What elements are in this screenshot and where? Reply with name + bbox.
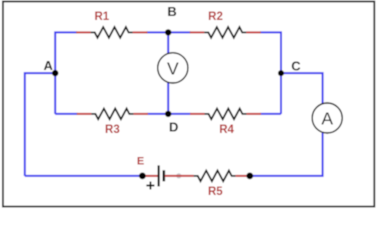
- resistor R2 zigzag: [204, 27, 246, 38]
- wire: bottom bridge row blue between R3 and R4 through node D: [147, 113, 191, 115]
- wire: battery to R5 (red): [165, 175, 194, 177]
- node C junction dot: [278, 70, 284, 76]
- svg-text:R3: R3: [105, 124, 120, 136]
- node D junction dot: [165, 111, 171, 117]
- wire: bottom outer row left blue (to battery junction): [25, 175, 141, 177]
- svg-text:R4: R4: [219, 124, 234, 136]
- battery plus sign: [146, 185, 154, 187]
- wire: top row left blue (bridge top-left corner to R1 left lead): [55, 32, 77, 114]
- wire: node A stub and left outer column: [25, 73, 55, 176]
- wire: bottom bridge row right blue: [260, 113, 281, 115]
- resistor R5 right lead (red): [236, 175, 250, 177]
- resistor R5 zigzag: [194, 171, 236, 182]
- wire: top row blue between R1 and R2 through node B: [147, 31, 191, 33]
- resistor R4 leads (red): [190, 113, 205, 115]
- wire: voltmeter to D: [167, 83, 169, 114]
- battery E short plate: [163, 170, 166, 181]
- resistor R1 zigzag: [91, 27, 133, 38]
- node B junction dot: [165, 29, 171, 35]
- svg-text:R2: R2: [208, 11, 223, 23]
- battery E long plate: [158, 165, 160, 186]
- svg-text:A: A: [44, 58, 54, 73]
- svg-text:R5: R5: [208, 186, 223, 198]
- resistor R2 leads (red): [190, 31, 205, 33]
- svg-text:V: V: [167, 58, 179, 78]
- svg-text:E: E: [137, 155, 144, 167]
- node A junction dot: [52, 70, 58, 76]
- wire: C to ammeter top: [281, 73, 323, 103]
- svg-text:A: A: [321, 108, 333, 128]
- ammeter U-A circle: [312, 103, 342, 133]
- resistor R1 leads (red): [76, 31, 91, 33]
- wire: bottom bridge row left blue: [55, 113, 77, 115]
- resistor R4 zigzag: [205, 109, 247, 120]
- wire: ammeter bottom to bottom row: [252, 133, 323, 176]
- node: battery left junction dot: [139, 173, 146, 180]
- wire: top row right blue (R2 to bridge top-right corner): [260, 32, 281, 114]
- node: faint gray junction on battery wire: [176, 173, 181, 178]
- battery E junction wire (red, dot to long plate): [142, 175, 157, 177]
- wire: B to voltmeter: [167, 32, 169, 53]
- resistor R3 zigzag: [91, 109, 133, 120]
- node: R5 right junction dot: [246, 173, 253, 180]
- svg-text:B: B: [167, 4, 176, 19]
- svg-text:C: C: [291, 59, 301, 74]
- resistor R3 leads (red): [77, 113, 92, 115]
- svg-text:R1: R1: [94, 11, 109, 23]
- svg-text:D: D: [169, 119, 178, 134]
- voltmeter U-V circle: [158, 53, 188, 83]
